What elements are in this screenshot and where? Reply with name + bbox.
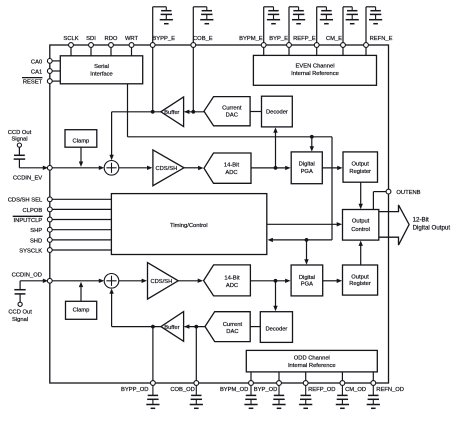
svg-text:REFP_E: REFP_E xyxy=(293,36,316,42)
pin REFP_E xyxy=(293,36,319,47)
wire DAC to buffer input (EVEN) xyxy=(184,110,204,114)
svg-text:SYSCLK: SYSCLK xyxy=(19,248,42,254)
pin BYPP_OD xyxy=(121,381,155,393)
pin RDO xyxy=(105,36,118,47)
svg-text:CCDIN_EV: CCDIN_EV xyxy=(13,175,42,181)
summing node (EVEN) xyxy=(104,161,119,176)
wire REFN_OD to ODD reference xyxy=(372,372,374,381)
wire RESET to serial interface xyxy=(52,80,61,82)
wire BYP_OD to ODD reference xyxy=(278,372,280,381)
pin SHP xyxy=(30,227,52,234)
wire output register to output control (ODD) xyxy=(359,241,363,266)
wire ADC out to decoder (ODD) xyxy=(273,281,277,311)
wire BYPP_OD up xyxy=(152,327,154,381)
wire gain bus into even PGA xyxy=(310,137,314,152)
capacitor to ground at BYPP_OD xyxy=(146,385,159,408)
svg-text:REFN_OD: REFN_OD xyxy=(376,387,404,393)
pin BYP_E xyxy=(269,36,291,47)
svg-text:Clamp: Clamp xyxy=(73,139,90,145)
svg-text:CCD Out: CCD Out xyxy=(8,309,32,315)
Digital PGA block (EVEN) xyxy=(291,152,322,184)
capacitor to ground at BYPP_E xyxy=(153,7,173,43)
wire CA1 to serial interface xyxy=(52,70,61,72)
wire serial interface gain bus xyxy=(128,84,333,242)
wire buffer out to summer (ODD) xyxy=(109,288,160,326)
wire CDS/SH to ADC (ODD) xyxy=(178,279,203,283)
Output Register block (EVEN) xyxy=(343,152,378,182)
junction BYPP_E node xyxy=(151,110,155,114)
svg-text:SHP: SHP xyxy=(30,228,42,234)
svg-text:SDI: SDI xyxy=(86,36,96,42)
svg-text:14-Bit: 14-Bit xyxy=(224,162,240,168)
wire CDS/SH SEL to timing/control xyxy=(52,198,111,200)
svg-text:Output: Output xyxy=(352,218,370,224)
Decoder block (ODD) xyxy=(260,312,292,343)
chip boundary xyxy=(50,45,389,383)
pin SYSCLK xyxy=(19,248,52,255)
svg-text:ADC: ADC xyxy=(225,170,237,176)
junction gain bus to even PGA xyxy=(310,135,314,139)
wire clamp to CCDIN_OD net (ODD) xyxy=(79,282,83,302)
pin BYPM_E xyxy=(239,36,266,47)
svg-text:Clamp: Clamp xyxy=(73,308,90,314)
wire timing/control to output control xyxy=(267,222,342,226)
wire COB_OD up xyxy=(195,327,197,381)
svg-text:Register: Register xyxy=(349,169,371,175)
pin SCLK xyxy=(63,36,78,47)
junction ADC out (EVEN) xyxy=(274,166,278,170)
svg-text:BYP_OD: BYP_OD xyxy=(254,387,278,393)
pin CCDIN_EV xyxy=(13,165,52,181)
overbar INPUTCLP xyxy=(13,215,43,217)
capacitor CCD input (EVEN) xyxy=(14,147,26,159)
wire CLPOB to timing/control xyxy=(52,208,111,210)
pin COB_OD xyxy=(170,381,198,393)
wire ADC out (EVEN) xyxy=(251,166,291,170)
capacitor to ground at REFN_OD xyxy=(367,385,380,408)
Digital PGA block (ODD) xyxy=(291,265,323,296)
svg-text:Internal Reference: Internal Reference xyxy=(291,71,339,77)
svg-text:DAC: DAC xyxy=(226,329,238,335)
wire BYPM_OD to ODD reference xyxy=(250,372,252,381)
capacitor CCD input (ODD) xyxy=(14,290,25,303)
svg-text:INPUTCLP: INPUTCLP xyxy=(14,218,43,224)
CDS/SH amplifier (EVEN) xyxy=(153,150,184,186)
capacitor to ground at BYPM_E xyxy=(264,7,280,43)
12-Bit digital output arrow xyxy=(379,205,451,245)
pin REFP_OD xyxy=(303,381,335,393)
junction gain bus to odd PGA xyxy=(305,238,309,242)
summing node (ODD) xyxy=(104,274,119,289)
svg-text:Digital: Digital xyxy=(299,275,315,281)
wire current DAC to decoder (EVEN) xyxy=(250,111,261,113)
pin BYPP_E xyxy=(150,36,175,47)
wire BYP_E to EVEN reference xyxy=(288,47,290,55)
svg-text:Buffer: Buffer xyxy=(164,110,179,116)
wire SHP to timing/control xyxy=(52,229,111,231)
pin SDI xyxy=(86,36,96,47)
svg-text:CM_OD: CM_OD xyxy=(345,387,366,393)
svg-text:CLPOB: CLPOB xyxy=(23,208,43,214)
capacitor to ground at BYPM_OD xyxy=(244,385,257,408)
Timing/Control block xyxy=(111,194,266,255)
svg-text:BYP_E: BYP_E xyxy=(269,36,288,42)
wire RDO to serial interface xyxy=(110,47,112,55)
svg-text:Digital: Digital xyxy=(299,162,315,168)
junction COB_E node xyxy=(191,110,195,114)
wire WRT to serial interface xyxy=(131,47,133,55)
pin CDS/SH SEL xyxy=(8,197,52,204)
wire SCLK to serial interface xyxy=(70,47,72,55)
svg-text:RESET: RESET xyxy=(23,80,43,86)
capacitor to ground at CM_E xyxy=(343,7,359,43)
svg-text:BYPM_E: BYPM_E xyxy=(239,36,263,42)
svg-text:CM_E: CM_E xyxy=(326,36,342,42)
svg-text:PGA: PGA xyxy=(301,282,313,288)
Decoder block (EVEN) xyxy=(262,96,293,127)
svg-text:CA1: CA1 xyxy=(31,69,42,75)
svg-text:SCLK: SCLK xyxy=(63,36,78,42)
svg-text:OUTENB: OUTENB xyxy=(396,190,420,196)
wire REFP_OD to ODD reference xyxy=(305,372,307,381)
svg-text:WRT: WRT xyxy=(125,36,139,42)
pin BYP_OD xyxy=(254,381,282,393)
node CCD Out Signal (EVEN) xyxy=(8,130,32,147)
buffer amplifier (EVEN) xyxy=(161,97,184,127)
wire BYPM_E to EVEN reference xyxy=(263,47,265,55)
Clamp block (ODD) xyxy=(66,301,97,319)
wire REFP_E to EVEN reference xyxy=(316,47,318,55)
svg-text:Control: Control xyxy=(351,227,370,233)
capacitor to ground at CM_OD xyxy=(336,385,349,408)
svg-text:Signal: Signal xyxy=(12,317,28,323)
wire DAC to buffer input (ODD) xyxy=(184,324,205,328)
svg-text:Register: Register xyxy=(349,281,371,287)
svg-text:COB_OD: COB_OD xyxy=(170,387,194,393)
svg-text:Decoder: Decoder xyxy=(265,327,287,333)
svg-text:ODD Channel: ODD Channel xyxy=(294,356,330,362)
svg-text:COB_E: COB_E xyxy=(193,36,213,42)
pin WRT xyxy=(125,36,139,47)
svg-text:BYPP_OD: BYPP_OD xyxy=(121,387,148,393)
capacitor to ground at REFP_OD xyxy=(299,385,312,408)
wire CM_OD to ODD reference xyxy=(341,372,343,381)
svg-text:ADC: ADC xyxy=(226,283,238,289)
wire CDS/SH to ADC (EVEN) xyxy=(184,166,204,170)
wire current DAC to decoder (ODD) xyxy=(250,326,260,328)
CDS/SH amplifier (ODD) xyxy=(148,263,179,300)
svg-text:Internal Reference: Internal Reference xyxy=(288,363,336,369)
svg-text:CCDIN_OD: CCDIN_OD xyxy=(12,272,42,278)
pin REFN_E xyxy=(364,36,393,47)
svg-text:BYPP_E: BYPP_E xyxy=(152,36,175,42)
capacitor to ground at REFN_E xyxy=(366,7,382,43)
pin CCDIN_OD xyxy=(12,272,53,283)
svg-text:REFP_OD: REFP_OD xyxy=(308,387,335,393)
pin CM_OD xyxy=(340,381,366,393)
wire SYSCLK to timing/control xyxy=(52,249,111,251)
junction COB_OD node xyxy=(194,325,198,329)
svg-text:Digital Output: Digital Output xyxy=(413,224,451,231)
svg-text:CDS/SH: CDS/SH xyxy=(155,166,177,172)
wire REFN_E to EVEN reference xyxy=(365,47,367,55)
wire OUTENB to output control xyxy=(373,192,386,210)
Output Register block (ODD) xyxy=(343,265,378,295)
Current DAC block (ODD) xyxy=(205,312,250,342)
Clamp block (EVEN) xyxy=(65,130,97,148)
capacitor to ground at COB_E xyxy=(193,7,213,43)
svg-text:REFN_E: REFN_E xyxy=(370,36,393,42)
wire CCD input to CCDIN_OD xyxy=(20,279,48,290)
capacitor to ground at BYP_E xyxy=(289,7,305,43)
node CCD Out Signal (ODD) xyxy=(8,302,32,323)
svg-text:Serial: Serial xyxy=(94,64,109,70)
svg-text:CDS/SH: CDS/SH xyxy=(150,279,172,285)
svg-text:Timing/Control: Timing/Control xyxy=(170,223,207,229)
pin CLPOB xyxy=(23,207,53,214)
svg-text:Signal: Signal xyxy=(11,137,27,143)
capacitor to ground at COB_OD xyxy=(190,385,203,408)
wire CA0 to serial interface xyxy=(52,60,61,62)
svg-text:CCD Out: CCD Out xyxy=(8,130,32,136)
svg-text:PGA: PGA xyxy=(301,169,313,175)
junction ADC out (ODD) xyxy=(274,279,278,283)
svg-text:14-Bit: 14-Bit xyxy=(224,276,240,282)
wire PGA to output register (ODD) xyxy=(323,279,342,283)
pin COB_E xyxy=(191,36,213,47)
Serial Interface block xyxy=(60,56,142,84)
wire ADC out (ODD) xyxy=(250,279,290,283)
wire summer to CDS/SH (ODD) xyxy=(119,279,147,283)
wire PGA to output register (EVEN) xyxy=(322,166,342,170)
capacitor to ground at REFP_E xyxy=(317,7,333,43)
svg-text:Output: Output xyxy=(351,162,369,168)
Output Control block xyxy=(343,210,379,241)
svg-text:Output: Output xyxy=(351,274,369,280)
svg-text:12-Bit: 12-Bit xyxy=(413,216,429,223)
wire BYPP_E down xyxy=(152,47,154,111)
EVEN Channel Internal Reference block xyxy=(253,55,376,85)
wire summer to CDS/SH (EVEN) xyxy=(119,166,153,170)
svg-text:Interface: Interface xyxy=(90,72,113,78)
capacitor to ground at BYP_OD xyxy=(272,385,285,408)
svg-text:CDS/SH SEL: CDS/SH SEL xyxy=(8,198,43,204)
pin INPUTCLP xyxy=(14,217,53,224)
pin CA1 xyxy=(31,69,52,76)
pin REFN_OD xyxy=(371,381,404,393)
junction BYPP_OD node xyxy=(151,325,155,329)
svg-text:EVEN Channel: EVEN Channel xyxy=(296,63,335,69)
pin BYPM_OD xyxy=(220,381,253,393)
pin CA0 xyxy=(31,59,52,66)
wire COB_E down xyxy=(192,47,194,111)
wire CCDIN_EV to summer xyxy=(52,166,104,170)
svg-text:Current: Current xyxy=(223,322,243,328)
buffer amplifier (ODD) xyxy=(161,312,184,342)
svg-text:CA0: CA0 xyxy=(31,59,42,65)
svg-text:SHD: SHD xyxy=(30,238,42,244)
wire buffer out to summer (EVEN) xyxy=(109,112,160,160)
pin OUTENB xyxy=(386,189,421,196)
wire CM_E to EVEN reference xyxy=(342,47,344,55)
svg-text:Decoder: Decoder xyxy=(266,110,288,116)
wire CCDIN_OD to summer xyxy=(52,279,104,283)
wire SHD to timing/control xyxy=(52,239,111,241)
svg-text:Buffer: Buffer xyxy=(164,325,179,331)
wire SDI to serial interface xyxy=(90,47,92,55)
pin RESET xyxy=(23,79,52,86)
ODD Channel Internal Reference block xyxy=(246,350,377,372)
wire gain bus into odd PGA xyxy=(304,240,308,265)
svg-text:Current: Current xyxy=(222,106,242,112)
14-Bit ADC block (EVEN) xyxy=(204,153,251,183)
svg-text:DAC: DAC xyxy=(226,112,238,118)
svg-text:RDO: RDO xyxy=(105,36,118,42)
overbar RESET xyxy=(22,77,42,79)
pin CM_E xyxy=(326,36,346,47)
wire clamp to CCDIN_EV net (EVEN) xyxy=(79,147,83,167)
14-Bit ADC block (ODD) xyxy=(204,265,251,296)
wire ADC out to decoder (EVEN) xyxy=(273,127,277,167)
svg-text:BYPM_OD: BYPM_OD xyxy=(220,387,248,393)
wire INPUTCLP to timing/control xyxy=(52,219,111,221)
pin SHD xyxy=(30,238,52,245)
Current DAC block (EVEN) xyxy=(204,97,250,126)
wire output register to output control (EVEN) xyxy=(359,182,363,209)
wire CCD input to CCDIN_EV xyxy=(19,159,48,170)
